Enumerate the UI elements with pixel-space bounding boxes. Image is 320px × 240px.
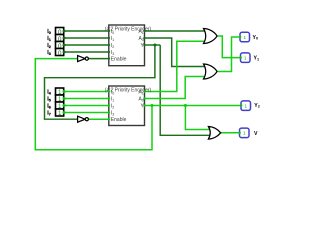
- svg-text:Y1: Y1: [254, 55, 260, 61]
- port dot: [63, 30, 66, 33]
- svg-text:I0: I0: [47, 29, 51, 35]
- svg-text:I3: I3: [47, 50, 51, 56]
- subcircuit box U2: [109, 86, 145, 126]
- wire I2 input to encoder U1: [64, 44, 109, 46]
- wire OR3 output to pin V: [221, 132, 240, 134]
- port dot: [108, 37, 110, 39]
- svg-text:Enable: Enable: [111, 117, 127, 123]
- wire U1 A1 to OR1 top input: [145, 30, 209, 32]
- svg-text:I5: I5: [47, 97, 51, 103]
- port dot: [108, 90, 110, 92]
- input pin I5: [56, 95, 64, 102]
- svg-text:0: 0: [58, 50, 62, 57]
- input pin I7: [56, 109, 64, 116]
- svg-text:I7: I7: [47, 111, 51, 117]
- input pin I6: [56, 102, 64, 109]
- svg-text:1: 1: [245, 104, 248, 109]
- NOT gate G1 (top): [78, 56, 89, 62]
- port dot: [240, 56, 242, 58]
- svg-text:1: 1: [244, 35, 247, 40]
- port dot: [63, 44, 66, 47]
- svg-text:1: 1: [58, 110, 62, 117]
- wire U1 Y to junction: [145, 44, 161, 46]
- wire NOT1 output to U1 Enable: [88, 58, 109, 60]
- port dot: [143, 90, 145, 92]
- port dot: [63, 97, 66, 100]
- port dot: [239, 132, 241, 134]
- input pin I3: [56, 49, 64, 56]
- svg-text:1: 1: [243, 131, 246, 136]
- port dot: [63, 111, 66, 114]
- wire U1 Y branch down to OR3 bottom input: [160, 45, 212, 135]
- port dot: [108, 57, 110, 59]
- port dot: [108, 104, 110, 106]
- output pin Y0: [240, 32, 250, 42]
- wire I1 input to encoder U1: [64, 37, 109, 39]
- port dot: [63, 37, 66, 40]
- port dot: [108, 30, 110, 32]
- port dot: [143, 104, 145, 106]
- wire OR1 output right-down to pin Y1: [217, 36, 241, 58]
- port dot: [63, 90, 66, 93]
- wire I6 input to encoder U2: [64, 105, 109, 107]
- port dot: [143, 44, 145, 46]
- node junction dot U2 Y branch to OR3: [184, 104, 187, 107]
- wire OR2 output right-up to pin Y0: [217, 37, 240, 72]
- node junction dot U1 Y: [153, 44, 156, 47]
- port dot: [63, 104, 66, 107]
- svg-text:1: 1: [244, 56, 247, 61]
- wire U2 A1 right then up to OR1 bottom input: [145, 41, 209, 91]
- svg-text:I4: I4: [47, 90, 51, 96]
- wire NOT2 output to U2 Enable: [88, 118, 109, 120]
- output pin Y2: [241, 101, 251, 111]
- output pin V: [240, 128, 250, 138]
- or-gate OR2: [204, 64, 218, 79]
- port dot: [108, 111, 110, 113]
- input pin I0: [56, 28, 64, 35]
- svg-text:Y2: Y2: [254, 103, 260, 109]
- port dot: [143, 30, 145, 32]
- or-gate OR3: [208, 127, 220, 140]
- port dot: [108, 44, 110, 46]
- port dot: [63, 51, 66, 54]
- wire I0 input to encoder U1: [64, 30, 109, 32]
- port dot: [108, 118, 110, 120]
- input pin I1: [56, 35, 64, 42]
- wire I5 input to encoder U2: [64, 98, 109, 100]
- port dot: [108, 97, 110, 99]
- wire U2 A0 right then up to OR2 bottom input: [145, 77, 209, 99]
- port dot: [143, 37, 145, 39]
- wire I3 input to encoder U1: [64, 51, 109, 53]
- wire I7 input to encoder U2: [64, 112, 109, 114]
- svg-text:V: V: [254, 131, 258, 137]
- port dot: [108, 51, 110, 53]
- wire U2 Y loop down-left-up to NOT1 input: [35, 59, 152, 150]
- subcircuit box U1: [109, 25, 145, 66]
- output pin Y1: [241, 53, 251, 63]
- wire U2 Y branch down to OR3 top input: [185, 106, 212, 130]
- port dot: [240, 104, 242, 106]
- node junction dot U2 Y branch to loop: [151, 104, 154, 107]
- wire U2 Y straight to output pin Y2: [145, 105, 243, 107]
- wire U1 A0 right then down to OR2 top input: [145, 38, 209, 67]
- svg-text:Y0: Y0: [253, 35, 259, 41]
- port dot: [143, 97, 145, 99]
- svg-text:I1: I1: [47, 36, 51, 42]
- input pin I4: [56, 88, 64, 95]
- svg-text:I2: I2: [47, 43, 51, 49]
- or-gate OR1: [204, 29, 218, 44]
- NOT gate G2 (bottom): [78, 116, 89, 122]
- input pin I2: [56, 42, 64, 49]
- wire U1 Y loop down-left-down to NOT2 input: [45, 45, 155, 119]
- port dot: [239, 36, 241, 38]
- wire I4 input to encoder U2: [64, 91, 109, 93]
- svg-text:Enable: Enable: [111, 57, 127, 63]
- svg-text:I6: I6: [47, 104, 51, 110]
